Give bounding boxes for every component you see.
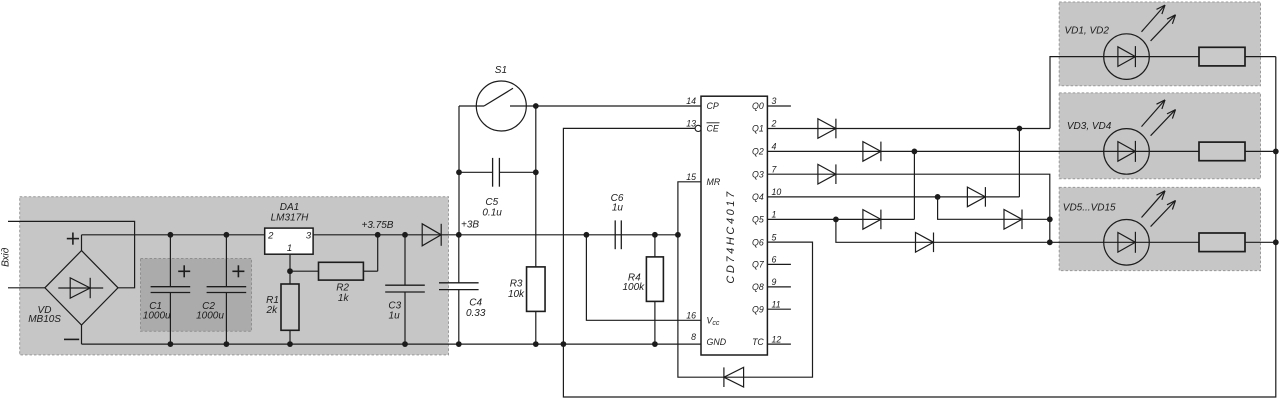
svg-text:GND: GND [707,337,727,347]
svg-text:CD74HC4017: CD74HC4017 [725,189,737,283]
svg-text:LM317H: LM317H [271,213,310,224]
svg-text:11: 11 [772,299,781,309]
svg-text:5: 5 [772,232,777,242]
svg-text:VD5...VD15: VD5...VD15 [1063,203,1116,214]
svg-text:+3В: +3В [461,220,479,231]
svg-text:Q1: Q1 [752,124,764,134]
svg-text:+3.75В: +3.75В [362,220,394,231]
svg-text:Q3: Q3 [752,169,764,179]
svg-text:Q4: Q4 [752,192,764,202]
svg-text:14: 14 [686,96,696,106]
svg-text:2: 2 [771,119,777,129]
svg-text:3: 3 [306,231,312,242]
svg-text:1000u: 1000u [143,311,171,322]
svg-text:Q0: Q0 [752,101,764,111]
svg-text:DA1: DA1 [280,202,299,213]
svg-text:VD3, VD4: VD3, VD4 [1067,121,1112,132]
svg-text:9: 9 [772,277,777,287]
svg-text:2: 2 [267,231,274,242]
svg-text:1: 1 [287,243,292,254]
svg-text:CE: CE [707,124,719,134]
svg-text:8: 8 [691,332,696,342]
svg-text:1u: 1u [389,311,401,322]
svg-text:CP: CP [707,101,719,111]
svg-text:16: 16 [686,311,696,321]
svg-text:15: 15 [686,172,696,182]
svg-text:0.1u: 0.1u [482,207,502,218]
svg-text:C5: C5 [485,197,498,208]
svg-text:Q5: Q5 [752,215,764,225]
svg-text:2k: 2k [266,305,279,316]
svg-text:12: 12 [772,334,782,344]
svg-text:100k: 100k [622,282,645,293]
svg-text:10: 10 [772,187,782,197]
svg-text:MB10S: MB10S [28,314,61,325]
svg-text:1k: 1k [338,293,350,304]
svg-text:Q2: Q2 [752,147,764,157]
svg-text:Q8: Q8 [752,282,764,292]
svg-text:Q7: Q7 [752,260,765,270]
svg-text:0.33: 0.33 [466,308,486,319]
svg-text:Q6: Q6 [752,237,764,247]
svg-text:TC: TC [752,337,764,347]
svg-text:7: 7 [772,164,778,174]
svg-text:4: 4 [772,142,777,152]
svg-text:10k: 10k [508,289,525,300]
svg-text:Q9: Q9 [752,304,764,314]
svg-text:VD1, VD2: VD1, VD2 [1064,26,1109,37]
svg-text:C4: C4 [469,298,482,309]
svg-text:Вхід: Вхід [1,247,12,267]
svg-text:1000u: 1000u [196,311,224,322]
svg-text:MR: MR [707,177,721,187]
svg-text:13: 13 [686,119,696,129]
svg-text:1: 1 [772,210,777,220]
svg-text:1u: 1u [612,203,624,214]
svg-text:S1: S1 [495,65,507,76]
svg-text:3: 3 [772,96,777,106]
svg-text:6: 6 [772,255,777,265]
svg-text:R3: R3 [510,278,523,289]
